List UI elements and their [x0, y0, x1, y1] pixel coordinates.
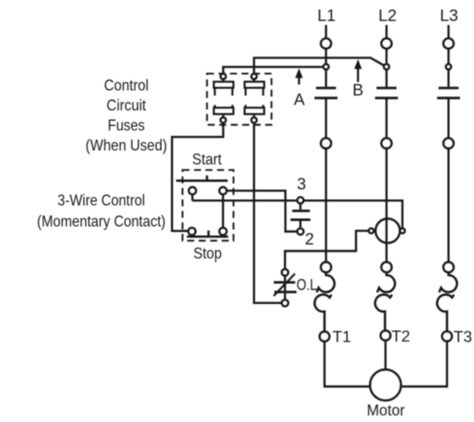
- wire B from fuse 2 top to L2: [254, 58, 384, 74]
- wire start left to terminal 3 and coil: [192, 201, 402, 229]
- svg-text:Control: Control: [104, 77, 149, 94]
- wire L1 stub: [325, 25, 327, 38]
- terminal L3: [443, 38, 453, 48]
- wire L1 junction to disconnect: [325, 70, 327, 87]
- wire L1 middle run: [325, 149, 327, 263]
- wire L2 middle run through coil area: [385, 149, 387, 263]
- svg-text:Circuit: Circuit: [107, 98, 147, 115]
- wire start right to terminal 2: [227, 191, 298, 232]
- terminal T3: [442, 331, 452, 341]
- wire start left terminal stub: [191, 194, 193, 200]
- wire start right to stop right: [222, 194, 224, 227]
- svg-text:B: B: [352, 81, 363, 99]
- svg-text:A: A: [294, 91, 305, 109]
- svg-text:3-Wire Control: 3-Wire Control: [58, 193, 146, 210]
- svg-text:Start: Start: [192, 151, 222, 168]
- wire L3 down: [447, 49, 449, 64]
- svg-text:T2: T2: [392, 328, 411, 345]
- svg-text:(Momentary Contact): (Momentary Contact): [37, 214, 166, 231]
- wire L2 to node B junction: [385, 49, 387, 64]
- wire L3 stub: [447, 25, 449, 38]
- junction circle on L3: [446, 64, 451, 69]
- terminal L1: [321, 38, 331, 48]
- wire L3 middle run: [447, 149, 449, 263]
- svg-text:(When Used): (When Used): [86, 138, 168, 155]
- wire fuse 1 to stop button: [172, 123, 223, 231]
- wire coil left to overload contact: [285, 231, 369, 269]
- fuse 1: [214, 74, 234, 123]
- overload contact O.L.: [274, 269, 297, 306]
- terminal L3 lower: [443, 138, 453, 148]
- node A junction on L1: [323, 64, 328, 69]
- text 3-wire control label: [37, 193, 166, 231]
- terminal L1 lower: [321, 138, 331, 148]
- svg-text:L2: L2: [378, 7, 396, 25]
- wire L2 disconnect to terminal: [385, 98, 387, 138]
- arrow B: [354, 59, 362, 82]
- svg-text:Motor: Motor: [367, 403, 406, 420]
- overload heater L1: [315, 272, 335, 331]
- overload heater L3: [437, 272, 457, 331]
- svg-text:Fuses: Fuses: [108, 117, 145, 134]
- control fuse box (dashed): [207, 74, 272, 125]
- terminal L3 heater top: [443, 262, 453, 272]
- terminal T1: [320, 332, 330, 342]
- wire T2 to motor: [384, 341, 386, 370]
- terminal L2: [381, 38, 391, 48]
- disconnect contact L3: [437, 88, 460, 98]
- wire fuse 2 down to overload contact: [254, 123, 282, 303]
- arrow A: [295, 68, 303, 84]
- wire A from fuse 1 top to L1: [223, 67, 323, 74]
- disconnect contact L2: [375, 88, 398, 98]
- aux contact M (seal-in): [291, 203, 311, 228]
- stop button NC contact: [187, 228, 228, 237]
- svg-text:T3: T3: [454, 329, 473, 346]
- wire T3 to motor: [402, 341, 447, 386]
- svg-text:3: 3: [297, 176, 306, 194]
- svg-text:T1: T1: [333, 329, 352, 346]
- node B junction on L2: [384, 64, 389, 69]
- terminal 2: [297, 228, 303, 234]
- fuse 2: [245, 74, 265, 123]
- wire L2 stub: [385, 25, 387, 38]
- wire L1 to node A junction: [325, 49, 327, 64]
- wire L1 disconnect to terminal: [325, 98, 327, 138]
- wire L2 junction to disconnect: [385, 70, 387, 87]
- wire L3 disconnect to terminal: [447, 98, 449, 138]
- overload heater L2: [375, 272, 395, 330]
- disconnect contact L1: [315, 88, 338, 98]
- wire L3 junction to disconnect: [447, 70, 449, 87]
- wire T1 to motor: [325, 342, 371, 387]
- svg-text:O.L.: O.L.: [297, 277, 321, 294]
- terminal T2: [381, 331, 391, 341]
- terminal L2 heater top: [381, 262, 391, 272]
- start button NO contact: [176, 175, 228, 194]
- text control circuit fuses label: [86, 77, 168, 154]
- terminal L1 heater top: [321, 262, 331, 272]
- pushbutton station box (dashed): [183, 170, 234, 241]
- terminal L2 lower: [381, 138, 391, 148]
- svg-text:L1: L1: [317, 7, 335, 25]
- svg-text:2: 2: [305, 231, 314, 249]
- svg-text:Stop: Stop: [193, 246, 222, 263]
- coil M: [369, 219, 405, 243]
- motor M1: [370, 370, 401, 401]
- terminal 3: [297, 197, 303, 203]
- svg-text:L3: L3: [440, 7, 458, 25]
